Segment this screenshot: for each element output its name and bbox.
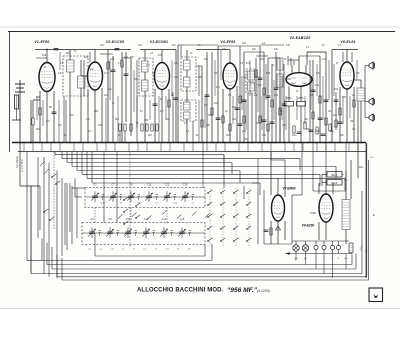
label V6: [340, 40, 355, 44]
svg-text:10n: 10n: [222, 48, 227, 51]
wires into trimmer bank: [65, 178, 117, 245]
bus B+ line: [18, 151, 366, 153]
label V8: [302, 224, 315, 228]
svg-text:V6-EL84: V6-EL84: [340, 40, 355, 44]
tube V8 EZ80 rectifier: [319, 194, 333, 222]
svg-text:220: 220: [214, 102, 219, 105]
svg-text:25u: 25u: [350, 120, 355, 123]
tube V7 EM80 magic eye: [272, 195, 285, 221]
svg-text:720: 720: [144, 119, 149, 122]
scan paper edge bottom: [0, 308, 400, 310]
stage V4 wiring: [178, 45, 239, 143]
svg-text:10n: 10n: [104, 94, 109, 97]
svg-text:6n8: 6n8: [42, 53, 47, 57]
label antenna rotated: [15, 156, 19, 168]
svg-text:“956 MF.”: “956 MF.”: [227, 287, 258, 294]
svg-text:40u: 40u: [359, 165, 364, 169]
tube V5 EABC80: [286, 65, 312, 86]
svg-text:10n: 10n: [174, 76, 179, 79]
tube V3 ECH81: [155, 63, 170, 90]
title text: [137, 288, 224, 294]
label E: [373, 213, 375, 217]
svg-text:470: 470: [110, 58, 115, 61]
bus tie wires: [24, 143, 358, 152]
svg-text:1M: 1M: [258, 84, 261, 87]
svg-text:470: 470: [158, 54, 163, 57]
if transformer T4: [246, 69, 256, 93]
svg-text:C15: C15: [183, 183, 188, 186]
svg-text:6n8: 6n8: [84, 56, 89, 59]
stage V6 wiring: [332, 50, 365, 143]
svg-text:10n: 10n: [315, 84, 320, 87]
switch matrix: [207, 188, 251, 246]
tube V2 ECC85: [88, 62, 103, 90]
wire avc: [30, 100, 32, 143]
tube V4 EF85: [223, 63, 237, 89]
label antenna rotated 2: [20, 158, 24, 172]
svg-text:47p: 47p: [124, 56, 129, 59]
psu link wires: [252, 178, 346, 244]
label pu: [370, 156, 374, 159]
svg-text:2M2: 2M2: [94, 111, 99, 113]
wire right rail: [365, 143, 367, 278]
svg-text:1M: 1M: [166, 118, 169, 121]
wave switch mid: [123, 152, 140, 248]
svg-text:2M2: 2M2: [292, 135, 297, 137]
svg-text:220: 220: [98, 124, 103, 127]
svg-text:1M: 1M: [328, 111, 331, 113]
channel crossing wires: [104, 143, 346, 191]
svg-text:10n: 10n: [333, 114, 338, 117]
tube V1 EF80: [39, 63, 55, 92]
wire trimmer feed: [95, 208, 167, 223]
svg-text:6n8: 6n8: [266, 72, 271, 75]
svg-text:25u: 25u: [330, 130, 335, 133]
if transformer T3: [181, 50, 196, 143]
svg-text:50p: 50p: [66, 52, 71, 55]
V7 wiring: [264, 152, 292, 244]
svg-text:2M2: 2M2: [226, 134, 231, 137]
svg-text:V4-EF85: V4-EF85: [220, 40, 235, 44]
label V3: [150, 40, 168, 44]
label 315: [344, 180, 348, 182]
wire speaker feed: [365, 66, 369, 118]
svg-text:V1-EF80: V1-EF80: [34, 40, 49, 44]
speaker 2: [369, 98, 375, 105]
svg-text:C11: C11: [147, 183, 152, 186]
label V1: [34, 40, 49, 44]
svg-text:100: 100: [198, 76, 203, 79]
svg-text:220: 220: [242, 42, 247, 45]
svg-text:o.m: o.m: [110, 249, 114, 251]
svg-text:C13: C13: [165, 183, 170, 186]
svg-text:220: 220: [242, 130, 247, 133]
if transformer T2: [139, 50, 153, 143]
stage V5 wiring: [238, 46, 329, 143]
capacitor C41 82uF: [327, 180, 342, 186]
svg-text:V3-ECH81: V3-ECH81: [150, 40, 168, 44]
label V2: [106, 40, 124, 44]
wire left drop: [20, 143, 40, 187]
dial lamps and voltage selector: [286, 241, 369, 255]
svg-text:V5-EABC80: V5-EABC80: [290, 36, 311, 40]
svg-text:ALLOCCHIO BACCHINI MOD.: ALLOCCHIO BACCHINI MOD.: [137, 288, 224, 294]
cap wires: [322, 171, 346, 191]
lamp drop wires: [296, 254, 346, 279]
wire rail 351: [350, 160, 352, 199]
svg-text:2M2: 2M2: [286, 78, 291, 81]
jumper wires: [36, 45, 326, 60]
wave switch left: [40, 152, 60, 230]
if transformer T1: [63, 50, 88, 143]
border top: [8, 31, 395, 33]
capacitor C40 82uF: [327, 172, 342, 178]
svg-text:10n: 10n: [138, 44, 143, 47]
antenna: [12, 80, 25, 143]
extra wires: [37, 50, 357, 143]
svg-text:C14: C14: [162, 218, 167, 221]
svg-text:82uF: 82uF: [331, 181, 338, 185]
svg-text:10n: 10n: [252, 48, 257, 51]
detector components: [293, 122, 331, 135]
bus chassis ground: [12, 142, 366, 144]
trimmer bank lower: [82, 218, 205, 245]
misc wires: [64, 52, 352, 143]
svg-text:p.u: p.u: [144, 249, 147, 251]
V8 wiring: [319, 178, 333, 240]
trimmer bank sublabels: [89, 248, 191, 251]
svg-text:10n: 10n: [206, 124, 211, 127]
svg-text:m.f: m.f: [166, 249, 169, 251]
label 40u: [359, 165, 364, 169]
svg-text:V7 EM80: V7 EM80: [282, 187, 295, 191]
svg-text:(5.1293): (5.1293): [257, 289, 270, 293]
label 4706: [310, 212, 316, 215]
inter-row switch arrows: [118, 210, 209, 219]
power transformer: [342, 191, 350, 244]
svg-text:S. s.C.M.R.: S. s.C.M.R.: [20, 158, 24, 172]
svg-text:82uF: 82uF: [331, 173, 338, 177]
svg-text:2M2: 2M2: [36, 128, 41, 131]
wire bottom loops: [31, 143, 369, 280]
label V7: [282, 187, 295, 191]
svg-text:o.c: o.c: [100, 249, 103, 251]
svg-text:1M: 1M: [172, 44, 175, 47]
label V4: [220, 40, 235, 44]
svg-text:S.p.Aliena: S.p.Aliena: [15, 156, 19, 168]
svg-text:47p: 47p: [58, 124, 63, 127]
title model: [227, 287, 258, 294]
bus junction dots: [25, 142, 357, 143]
svg-text:100: 100: [100, 44, 105, 47]
svg-text:330: 330: [262, 134, 267, 137]
value labels scatter: [36, 42, 359, 137]
stage V1 wiring: [32, 49, 95, 143]
left drop wires: [27, 152, 77, 279]
svg-text:1M: 1M: [86, 118, 89, 121]
trimmer bank upper: [85, 183, 205, 207]
wire top link: [95, 49, 108, 51]
speaker 3: [369, 114, 375, 121]
svg-text:470: 470: [274, 94, 279, 97]
logo box: [369, 288, 383, 302]
tube V6 EL84: [340, 62, 354, 89]
svg-text:10n: 10n: [214, 72, 219, 75]
trimmer unit labels: [90, 203, 195, 233]
voltage selector labels: [294, 258, 347, 260]
svg-text:V2-ECC85: V2-ECC85: [106, 40, 124, 44]
svg-text:V8-EZ80: V8-EZ80: [302, 224, 315, 228]
svg-text:10n: 10n: [108, 88, 113, 91]
stage V2 wiring: [81, 49, 132, 143]
wire left rail: [9, 32, 11, 153]
speaker 1: [369, 62, 375, 69]
svg-text:287F: 287F: [298, 97, 304, 100]
svg-text:1M: 1M: [36, 95, 40, 99]
svg-text:287F: 287F: [286, 97, 292, 100]
wire rail 358: [357, 101, 359, 178]
svg-text:C16: C16: [180, 218, 185, 221]
title date: [257, 289, 270, 293]
label V5: [290, 36, 311, 40]
svg-text:1M: 1M: [356, 72, 359, 75]
svg-text:2k2: 2k2: [115, 118, 120, 121]
extra value labels: [44, 51, 357, 141]
svg-text:E: E: [373, 213, 375, 217]
svg-text:470Ω: 470Ω: [310, 212, 316, 215]
svg-text:6n8: 6n8: [334, 88, 339, 91]
svg-text:10n: 10n: [232, 118, 237, 121]
stage V3 wiring: [140, 50, 178, 143]
svg-text:470: 470: [342, 96, 347, 99]
V7 feed wires: [224, 152, 285, 199]
wire routing channel: [55, 152, 345, 196]
scan paper edge top: [0, 26, 400, 28]
